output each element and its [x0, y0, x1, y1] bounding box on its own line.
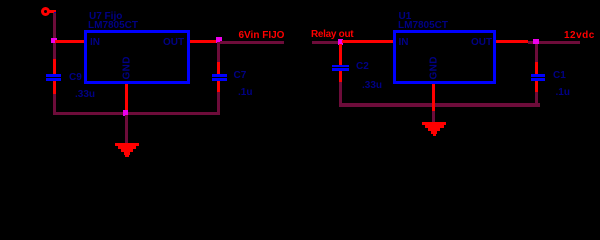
capacitor C1 top lead — [535, 62, 538, 74]
wire: terminal down to input node — [53, 13, 56, 40]
node: output junction (right circuit) — [533, 39, 539, 45]
capacitor C2 plates — [332, 65, 349, 68]
wire: junction to U1 IN pin (red lead) — [342, 40, 393, 43]
connector J1 (input terminal) — [41, 7, 50, 16]
net label 12vdc — [564, 32, 595, 40]
capacitor C2 top lead — [339, 44, 342, 65]
wire: junction to U7 IN pin (red lead) — [55, 40, 84, 43]
ground (right circuit) — [422, 122, 447, 125]
wire: C9 bottom to ground rail — [53, 94, 56, 116]
capacitor C2 bottom lead — [339, 71, 342, 82]
wire: U1 OUT pin red lead — [496, 40, 528, 43]
label U7 Fijo — [89, 13, 122, 21]
pin label OUT of U1 — [471, 39, 492, 47]
capacitor C7 bottom lead — [217, 81, 220, 92]
wire: ground rail (right circuit) — [339, 103, 541, 107]
net label Relay out — [311, 31, 353, 39]
wire: output net stub right — [528, 41, 580, 44]
label U1 — [399, 13, 412, 21]
value .33u (C9) — [75, 91, 95, 99]
pin label IN of U1 — [399, 39, 409, 47]
capacitor C1 plates — [531, 74, 545, 77]
node: input junction (right circuit) — [338, 39, 344, 45]
node: output junction (left circuit) — [216, 37, 222, 43]
wire: U7 OUT pin red lead — [190, 40, 216, 43]
wire: Relay out stub to input junction (right circuit) — [312, 41, 338, 44]
wire: C2 bottom to ground rail — [339, 82, 342, 106]
wire: GND pin to ground symbol — [432, 111, 435, 122]
value .1u (C1) — [556, 89, 570, 97]
pin label GND of U1 (rotated) — [430, 56, 438, 79]
wire: U1 GND pin red lead — [432, 84, 435, 111]
wire: C1 bottom to ground rail — [535, 92, 538, 107]
ground (left circuit) — [115, 143, 140, 146]
pin tip (blue) of connector J1 — [54, 12, 57, 15]
wire: output junction down to C1 — [535, 44, 538, 62]
op-amp U1 regulator box LM7805CT — [393, 30, 497, 84]
node: ground junction (left circuit) — [123, 110, 129, 116]
capacitor C7 top lead — [217, 62, 220, 74]
wire: output junction down to C7 — [217, 42, 220, 62]
label C2 — [356, 63, 369, 71]
net label 6Vin FIJO — [239, 32, 285, 40]
value label LM7805CT (U1) — [398, 22, 448, 30]
wire: U7 GND pin red lead — [125, 84, 128, 110]
wire: C7 bottom to ground rail — [217, 92, 220, 115]
label C7 — [234, 72, 247, 80]
value .1u (C7) — [238, 89, 252, 97]
capacitor C9 top lead — [53, 59, 56, 74]
wire: ground rail (left circuit) — [53, 112, 220, 115]
wire: output junction to net stub right — [220, 41, 284, 44]
node: input junction (left) — [51, 38, 57, 44]
value label LM7805CT (U7) — [88, 22, 138, 30]
value .33u (C2) — [362, 82, 382, 90]
wire: input junction down to C9 — [53, 43, 56, 59]
capacitor C1 bottom lead — [535, 81, 538, 92]
wire: ground junction down to ground symbol — [125, 115, 128, 143]
pin label GND of U7 (rotated) — [124, 56, 132, 79]
capacitor C7 plates — [212, 74, 228, 77]
pin label IN of U7 — [90, 39, 100, 47]
label C9 — [69, 74, 82, 82]
capacitor C9 bottom lead — [53, 81, 56, 94]
label C1 — [553, 72, 566, 80]
capacitor C9 plates — [46, 74, 61, 77]
op-amp U7 regulator box LM7805CT — [84, 30, 190, 84]
pin label OUT of U7 — [163, 39, 184, 47]
